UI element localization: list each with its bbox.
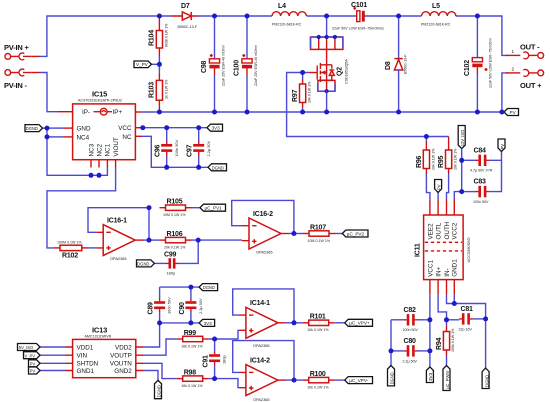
- capacitor C97: [187, 128, 211, 168]
- svg-text:10k 0.1W 1%: 10k 0.1W 1%: [181, 344, 203, 348]
- junction C89 bottom: [157, 320, 162, 325]
- junction NC2: [97, 173, 102, 178]
- junction C102 bottom: [475, 110, 480, 115]
- wire VCC1 down to 3V3: [429, 295, 431, 367]
- svg-text:IN+: IN+: [436, 267, 443, 277]
- junction NC3: [89, 173, 94, 178]
- wire VIOUT to R102: [47, 168, 116, 248]
- net label 3V3 at C90: [199, 319, 215, 326]
- svg-text:µC_PWM: µC_PWM: [445, 371, 450, 389]
- svg-text:1: 1: [512, 49, 515, 54]
- svg-text:20k 0.1W 1%: 20k 0.1W 1%: [164, 245, 186, 249]
- junction C83 left: [459, 189, 464, 194]
- wire main rail IP+ to PV label: [141, 111, 502, 113]
- junction C90 bottom: [188, 320, 193, 325]
- svg-text:100k 0.1W 1%: 100k 0.1W 1%: [451, 328, 455, 352]
- junction R97 bottom: [300, 110, 305, 115]
- svg-text:C80: C80: [404, 338, 417, 345]
- resistor R106: [160, 231, 192, 250]
- transistor Q2 MOSFET symbol: [309, 49, 349, 84]
- svg-text:NC4: NC4: [77, 134, 90, 141]
- svg-text:10M 0.1W 1%: 10M 0.1W 1%: [308, 239, 331, 243]
- svg-text:22p 16V: 22p 16V: [459, 327, 473, 331]
- wire NC pin to caps bottom DGND: [142, 136, 209, 167]
- svg-text:R106: R106: [167, 231, 183, 238]
- svg-text:OUTL: OUTL: [436, 222, 443, 239]
- net label V_PV: [134, 61, 159, 68]
- svg-text:10k 0.1W 1%: 10k 0.1W 1%: [307, 328, 329, 332]
- net label PV right of rail: [502, 109, 519, 116]
- resistor R102: [54, 241, 88, 260]
- junction C81 right: [483, 316, 488, 321]
- svg-text:R96: R96: [416, 155, 423, 168]
- svg-text:100n 50V: 100n 50V: [174, 139, 179, 156]
- junction C100 top: [245, 14, 250, 19]
- wire C82 C80 left DGND: [390, 320, 392, 366]
- net label V_PV at VIN: [24, 352, 66, 359]
- pins IC11 bottom stubs: [430, 280, 454, 295]
- wire PV-IN- down to IP-: [40, 73, 59, 112]
- wire 12V_ISO down to VCC2: [454, 149, 461, 200]
- svg-text:DGND: DGND: [212, 165, 224, 170]
- svg-text:IP-: IP-: [82, 109, 90, 116]
- svg-text:B550C-13-F: B550C-13-F: [178, 25, 198, 29]
- net label PV at GND1: [29, 367, 66, 374]
- op-amp IC16-1: [96, 218, 135, 262]
- junction C90 top: [188, 285, 193, 290]
- wire IN- to GND1: [447, 295, 455, 304]
- wire R107 to uC_PV2: [335, 233, 342, 235]
- resistor R103: [149, 74, 169, 112]
- capacitor C98: [201, 16, 226, 112]
- svg-text:IC14-2: IC14-2: [250, 358, 270, 365]
- wire gate drive net: [287, 73, 449, 137]
- svg-text:GND1: GND1: [452, 259, 459, 277]
- svg-text:IC11: IC11: [415, 243, 422, 257]
- junction IN- GND1: [452, 301, 457, 306]
- junction V_PV: [157, 62, 162, 67]
- junction IC16-1 output: [147, 238, 152, 243]
- resistor R97: [292, 73, 312, 113]
- wire caps top to DGND label: [160, 286, 200, 288]
- svg-text:OUT -: OUT -: [520, 43, 540, 52]
- svg-text:12V_ISO: 12V_ISO: [460, 130, 465, 147]
- pin NC stub: [135, 135, 141, 137]
- net label 12V_ISO: [458, 126, 465, 149]
- resistor R100: [303, 371, 335, 390]
- wire R104 to R103 node V_PV: [158, 56, 160, 74]
- pin IC14-1 output stub: [278, 322, 286, 324]
- junction C84 left: [459, 158, 464, 163]
- junction C98 top: [212, 14, 217, 19]
- junction C97 top: [196, 125, 201, 130]
- svg-text:IN-: IN-: [444, 268, 451, 276]
- net label DGND right bottom: [482, 368, 489, 388]
- junction feedback R105: [147, 205, 152, 210]
- svg-text:C82: C82: [404, 307, 417, 314]
- svg-text:GND1: GND1: [77, 368, 95, 375]
- svg-text:SHTDN: SHTDN: [77, 361, 99, 368]
- diode D7: [172, 3, 199, 29]
- svg-text:2.2µ 50V: 2.2µ 50V: [403, 359, 418, 363]
- svg-text:OPA2365: OPA2365: [110, 256, 127, 261]
- pin GND stub: [63, 127, 73, 129]
- wire output to R107: [289, 233, 304, 235]
- svg-text:C84: C84: [474, 147, 487, 154]
- junction VCC stub: [140, 125, 145, 130]
- svg-text:R103: R103: [149, 82, 156, 98]
- wire output to R100: [286, 379, 303, 381]
- inductor L5: [421, 3, 456, 27]
- svg-text:180p: 180p: [221, 355, 226, 364]
- svg-text:C98: C98: [201, 60, 208, 73]
- wire IC14-1 feedback loop: [233, 289, 294, 323]
- resistor R107: [303, 224, 335, 243]
- wire output to R101: [286, 322, 303, 324]
- wire R99 to IC14-1 plus: [209, 330, 239, 339]
- wire caps bottom to 3V3 label: [160, 322, 200, 324]
- junction C80 left: [389, 348, 394, 353]
- svg-text:C91: C91: [203, 355, 210, 368]
- svg-text:DGND: DGND: [26, 126, 38, 131]
- svg-text:DGND: DGND: [203, 285, 215, 290]
- svg-text:IP+: IP+: [113, 109, 123, 116]
- pin IC16-1 output stub: [135, 239, 143, 241]
- pins IC13 right stubs: [136, 347, 144, 371]
- wire VDD2 up to C89 bottom: [144, 323, 160, 347]
- wire GND2 to DGND: [144, 371, 159, 381]
- svg-text:DGND: DGND: [484, 375, 489, 387]
- svg-text:PM2120-681K-RC: PM2120-681K-RC: [272, 23, 302, 27]
- pin IP+ stub: [135, 111, 141, 113]
- svg-text:DGND: DGND: [137, 261, 149, 266]
- op-amp IC14-2: [239, 358, 278, 402]
- svg-text:R100: R100: [310, 371, 326, 378]
- svg-text:OPA2365: OPA2365: [253, 397, 270, 402]
- wire DGND net left of IC15: [47, 128, 107, 175]
- svg-text:VCC2: VCC2: [452, 222, 459, 239]
- connector OUT -: [506, 43, 544, 59]
- wire IN+ to R94 node: [438, 295, 446, 320]
- svg-text:OUT +: OUT +: [520, 81, 542, 90]
- svg-text:VIOUT: VIOUT: [113, 137, 120, 156]
- svg-text:OUTH: OUTH: [444, 221, 451, 239]
- wire output node to R106: [144, 239, 160, 241]
- wire R102 to IC16-1 plus input: [88, 247, 96, 249]
- net label PV at OUTL: [435, 180, 442, 201]
- junction OUT+ tap: [499, 110, 504, 115]
- svg-text:VOUTN: VOUTN: [110, 361, 132, 368]
- svg-text:OPA2365: OPA2365: [253, 343, 270, 348]
- svg-text:100n 50V: 100n 50V: [167, 297, 172, 314]
- wire NC4 pin to DGND net: [47, 136, 63, 138]
- net label uC_PV1: [200, 204, 226, 211]
- svg-text:180p: 180p: [167, 271, 176, 276]
- svg-text:IC16-2: IC16-2: [253, 211, 273, 218]
- connector PV-IN -: [4, 69, 40, 90]
- capacitor C89: [148, 287, 172, 323]
- svg-text:6k98 0.1W 1%: 6k98 0.1W 1%: [164, 23, 168, 47]
- junction C99 tap: [196, 238, 201, 243]
- capacitor C91: [203, 339, 227, 379]
- net label uC_VPV+: [345, 319, 373, 326]
- junction IC16-2 output: [291, 231, 296, 236]
- svg-text:GND: GND: [77, 126, 91, 133]
- svg-text:C97: C97: [187, 144, 194, 157]
- junction C91 top: [212, 337, 217, 342]
- svg-text:IC15: IC15: [92, 90, 107, 99]
- svg-text:2.2µ 50V: 2.2µ 50V: [206, 140, 211, 156]
- svg-text:NC3: NC3: [88, 143, 95, 156]
- svg-text:10k 0.1W 1%: 10k 0.1W 1%: [181, 384, 203, 388]
- wire top rail L5 to OUT-: [456, 16, 508, 55]
- op-amp IC15 current sensor box: [73, 90, 136, 160]
- svg-text:L4: L4: [278, 3, 286, 10]
- wire top rail L4 to C101: [307, 15, 358, 17]
- svg-text:µC_VPV+: µC_VPV+: [349, 321, 370, 326]
- op-amp IC13 isolation amp box: [73, 325, 136, 377]
- capacitor C90: [179, 287, 203, 323]
- resistor R99: [177, 330, 209, 349]
- capacitor C102: [464, 16, 493, 112]
- diode D8: [385, 16, 408, 112]
- transistor Q2 drain pins block: [311, 16, 343, 49]
- pin NC3 NC2 NC1 VIOUT stubs: [91, 160, 116, 168]
- svg-text:5V_ISO: 5V_ISO: [19, 345, 33, 350]
- svg-text:R107: R107: [310, 224, 326, 231]
- net label uC_PWM: [443, 366, 450, 391]
- wire R98 to IC14-2 plus: [209, 379, 239, 388]
- wire GND pin to DGND net: [47, 127, 63, 129]
- wire R105 to uC_PV1: [192, 207, 201, 209]
- svg-text:PV: PV: [30, 361, 36, 366]
- resistor R98: [177, 369, 209, 388]
- svg-text:VCC: VCC: [118, 125, 132, 132]
- svg-text:22uF 25V ESR-40 mOhm: 22uF 25V ESR-40 mOhm: [254, 45, 258, 86]
- resistor R95: [438, 137, 458, 175]
- svg-text:C101: C101: [351, 2, 367, 9]
- resistor R105: [160, 199, 192, 218]
- svg-text:IC16-1: IC16-1: [107, 218, 127, 225]
- svg-text:R104: R104: [149, 30, 156, 46]
- resistor R101: [303, 314, 335, 333]
- svg-text:C96: C96: [155, 144, 162, 157]
- svg-text:PV: PV: [510, 110, 517, 115]
- junction C91 bottom: [212, 376, 217, 381]
- svg-text:C102: C102: [464, 60, 471, 76]
- svg-text:PV: PV: [30, 369, 36, 374]
- junction C80 right: [427, 348, 432, 353]
- connector PV-IN +: [4, 43, 40, 60]
- pin VCC stub: [135, 127, 141, 129]
- resistor R94: [436, 320, 455, 366]
- capacitor C100: [234, 16, 259, 112]
- wire GND1 down and right: [454, 295, 485, 319]
- wire OUT+ from main rail: [502, 73, 508, 112]
- junction GND on DGND net: [45, 126, 50, 131]
- junction C82 right: [427, 317, 432, 322]
- net label uC_VPV-: [345, 377, 373, 384]
- wire R100 to uC_VPV-: [335, 379, 345, 381]
- junction D8 anode on rail: [396, 110, 401, 115]
- net label DGND left of C80: [388, 366, 395, 386]
- capacitor C99: [164, 252, 179, 276]
- svg-text:DGND: DGND: [390, 372, 395, 384]
- net label DGND right of C97: [208, 164, 227, 171]
- net label 5V_ISO: [18, 344, 66, 351]
- svg-text:D7: D7: [181, 3, 190, 10]
- junction gate at R97: [300, 70, 305, 75]
- svg-text:PM2120-681K-RC: PM2120-681K-RC: [421, 23, 451, 27]
- svg-text:C81: C81: [461, 306, 474, 313]
- wire C99 riser: [179, 240, 199, 263]
- transistor Q2 source pins block: [318, 80, 335, 112]
- pin IC14-2 output stub: [278, 379, 286, 381]
- svg-text:NC2: NC2: [96, 143, 103, 156]
- junction C96 top: [164, 125, 169, 130]
- svg-text:IC14-1: IC14-1: [250, 300, 270, 307]
- svg-text:C90: C90: [179, 302, 186, 315]
- capacitor C84: [462, 147, 502, 172]
- capacitor C80: [391, 338, 430, 363]
- junction IC14-2 output: [292, 378, 297, 383]
- capacitor C96: [155, 128, 179, 168]
- svg-text:Q2: Q2: [337, 67, 344, 76]
- svg-text:C99: C99: [164, 252, 177, 259]
- pin IC16-2 output stub: [281, 233, 289, 235]
- wire R106 to IC16-2 plus input: [192, 239, 243, 241]
- net label PV at C84: [498, 139, 505, 152]
- svg-text:UCC5390SBD: UCC5390SBD: [466, 237, 471, 262]
- junction Q2 drain tap: [324, 14, 329, 19]
- wire PV-IN+ up to top rail: [40, 16, 172, 56]
- capacitor C83: [462, 160, 502, 204]
- op-amp IC11 gate driver box: [415, 215, 472, 280]
- svg-text:V_PV: V_PV: [25, 353, 36, 358]
- net label DGND below IC13: [155, 380, 162, 398]
- capacitor C82: [391, 307, 430, 332]
- junction Q2 source on rail: [324, 110, 329, 115]
- junction C100 bottom: [245, 110, 250, 115]
- junction R94 top: [444, 317, 449, 322]
- net label PV at SHTDN: [29, 360, 66, 367]
- pin IP- stub: [58, 111, 73, 113]
- svg-text:AMC1311DWVR: AMC1311DWVR: [85, 334, 112, 338]
- svg-text:PV: PV: [436, 184, 441, 190]
- op-amp IC16-2: [242, 211, 281, 255]
- pin NC4 stub: [63, 136, 73, 138]
- net label 3V3 below C80: [426, 367, 433, 383]
- net label DGND at IC15: [25, 125, 47, 132]
- svg-text:VIN: VIN: [77, 353, 88, 360]
- svg-text:PV-IN +: PV-IN +: [4, 43, 29, 52]
- svg-text:GND2: GND2: [114, 368, 132, 375]
- junction R104 top: [157, 14, 162, 19]
- net label uC_PV2: [342, 230, 368, 237]
- svg-text:VDD1: VDD1: [77, 344, 94, 351]
- wire VCC to 3V3: [142, 127, 208, 129]
- svg-text:DGND: DGND: [157, 385, 162, 397]
- svg-text:4.7µ 50V X7R: 4.7µ 50V X7R: [470, 169, 493, 173]
- svg-text:PV-IN -: PV-IN -: [4, 81, 27, 90]
- svg-text:10k 0.1W 1%: 10k 0.1W 1%: [308, 81, 312, 103]
- wire IC16-2 feedback loop: [232, 200, 294, 233]
- svg-text:µC_PV1: µC_PV1: [205, 206, 223, 211]
- capacitor C81: [447, 306, 486, 331]
- svg-text:VDD2: VDD2: [115, 344, 132, 351]
- svg-text:V_PV: V_PV: [136, 62, 149, 67]
- wire IC14-2 feedback loop: [233, 341, 294, 381]
- svg-text:10k 0.1W 1%: 10k 0.1W 1%: [307, 385, 329, 389]
- net label DGND at C90: [199, 284, 218, 291]
- wire top rail D7 to L4: [198, 15, 272, 17]
- svg-text:R94: R94: [436, 337, 443, 350]
- net label 3V3 at IC15: [207, 124, 223, 131]
- svg-text:22uF 50V LOW ESR~75mOhm: 22uF 50V LOW ESR~75mOhm: [489, 38, 493, 88]
- svg-text:20k 0.1W 1%: 20k 0.1W 1%: [431, 148, 435, 170]
- junction C96 bottom: [164, 165, 169, 170]
- junction C102 tap: [475, 14, 480, 19]
- svg-text:22uF 25V ESR-40 mOhm: 22uF 25V ESR-40 mOhm: [222, 45, 226, 86]
- svg-text:L5: L5: [432, 3, 440, 10]
- wire R101 to uC_VPV+: [335, 322, 345, 324]
- svg-text:µC_PV2: µC_PV2: [347, 231, 365, 236]
- svg-text:22uF 50V LOW ESR~75mOhms: 22uF 50V LOW ESR~75mOhms: [332, 27, 384, 31]
- wire VOUTP to R99: [144, 339, 177, 355]
- svg-text:NC1: NC1: [105, 143, 112, 156]
- svg-text:ACS70331EESATR-2P5U3: ACS70331EESATR-2P5U3: [78, 99, 122, 103]
- svg-text:IC13: IC13: [92, 325, 107, 334]
- svg-text:B550C-13-F: B550C-13-F: [404, 54, 408, 74]
- svg-text:D8: D8: [385, 61, 392, 70]
- wire R96 to VEE2: [426, 174, 430, 200]
- svg-text:VCC1: VCC1: [427, 260, 434, 277]
- svg-text:C89: C89: [148, 302, 155, 315]
- svg-text:R98: R98: [184, 369, 197, 376]
- connector OUT +: [506, 67, 544, 90]
- junction gate line at R96: [424, 134, 429, 139]
- net label DGND at C99: [137, 260, 166, 267]
- svg-text:20k 0.1W 1%: 20k 0.1W 1%: [454, 148, 458, 170]
- junction R103 bottom on rail: [157, 110, 162, 115]
- svg-text:3V3: 3V3: [428, 372, 433, 381]
- wire R95 to OUTH: [447, 174, 449, 200]
- svg-text:10M 0.1W 1%: 10M 0.1W 1%: [163, 213, 186, 217]
- svg-text:R99: R99: [184, 330, 197, 337]
- svg-text:3V3: 3V3: [212, 126, 221, 131]
- svg-text:VEE2: VEE2: [427, 223, 434, 240]
- junction IC14-1 output: [292, 320, 297, 325]
- svg-text:1k 0.1W 1%: 1k 0.1W 1%: [164, 79, 168, 99]
- pins IC11 top stubs: [430, 200, 454, 215]
- svg-text:µC_VPV-: µC_VPV-: [349, 378, 368, 383]
- resistor R104: [149, 16, 169, 56]
- svg-text:100M 0.1W 1%: 100M 0.1W 1%: [57, 241, 82, 245]
- svg-text:R97: R97: [292, 89, 299, 102]
- svg-text:NC: NC: [122, 134, 132, 141]
- capacitor C101: [332, 2, 384, 31]
- svg-text:100n 50V: 100n 50V: [403, 328, 419, 332]
- op-amp IC14-1: [239, 300, 278, 348]
- svg-text:2.2µ 50V: 2.2µ 50V: [198, 298, 203, 314]
- wire IC16-1 feedback loop: [88, 208, 149, 240]
- svg-text:C100: C100: [234, 60, 241, 76]
- svg-text:PV: PV: [500, 144, 505, 150]
- wire C81 right down to DGND: [485, 319, 487, 368]
- wire top rail C101 to L5: [365, 15, 422, 17]
- svg-text:R105: R105: [167, 199, 183, 206]
- resistor R96: [416, 137, 436, 175]
